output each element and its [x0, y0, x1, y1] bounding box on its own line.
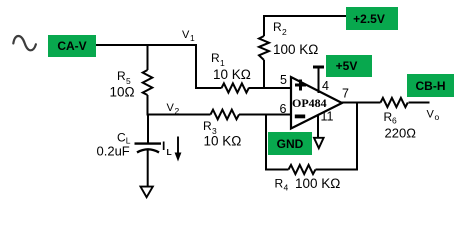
wire: R2 top to +2.5V [263, 15, 346, 17]
svg-text:10Ω: 10Ω [110, 85, 135, 100]
output wire: R6 to Vo [409, 102, 430, 104]
+5V supply bar and pin 4 wire [313, 67, 324, 93]
resistor R3 [203, 110, 241, 149]
resistor R1 [211, 51, 251, 93]
svg-text:6: 6 [280, 102, 287, 116]
svg-text:7: 7 [342, 87, 349, 101]
resistor R4 [275, 165, 341, 193]
svg-text:V: V [427, 109, 435, 121]
svg-text:R: R [117, 69, 126, 83]
svg-text:+2.5V: +2.5V [353, 12, 385, 26]
svg-text:4: 4 [322, 79, 329, 93]
svg-text:0.2uF: 0.2uF [97, 144, 130, 159]
svg-text:R: R [273, 20, 282, 34]
svg-text:11: 11 [321, 110, 334, 124]
svg-text:C: C [117, 131, 126, 145]
node V2 label [167, 102, 180, 116]
resistor R2 [259, 16, 318, 89]
svg-text:o: o [435, 112, 440, 122]
svg-text:V: V [182, 29, 190, 41]
wire: R3 to op-amp - input [239, 114, 291, 116]
svg-text:L: L [167, 147, 172, 157]
+5V label box [326, 55, 372, 77]
svg-text:+5V: +5V [336, 59, 358, 73]
capacitor CL [97, 115, 162, 188]
svg-text:R: R [203, 119, 212, 133]
ground below capacitor [141, 187, 153, 198]
svg-text:100 KΩ: 100 KΩ [295, 176, 340, 191]
CA-V input label box [48, 35, 96, 57]
svg-text:220Ω: 220Ω [385, 126, 417, 141]
wire: V1 down to R1 row [196, 44, 222, 88]
svg-text:4: 4 [284, 183, 289, 193]
op-amp U1 OP484 [291, 77, 342, 129]
wire: R1 to op-amp + input [249, 87, 292, 89]
svg-text:R: R [275, 177, 284, 191]
svg-text:I: I [162, 139, 165, 153]
AC source sine symbol [13, 36, 36, 50]
current IL label and arrow [162, 137, 181, 162]
ground at pin 11 [314, 138, 324, 148]
svg-text:5: 5 [280, 73, 287, 87]
wire: CA-V to node V1 corner [96, 44, 196, 46]
feedback wire: up to output node [356, 103, 358, 171]
svg-text:2: 2 [282, 27, 287, 37]
feedback bottom wire right [316, 169, 359, 171]
GND label box [268, 132, 312, 155]
svg-text:V: V [167, 102, 175, 114]
svg-text:10 KΩ: 10 KΩ [213, 67, 251, 82]
pin 11 wire to ground [317, 115, 319, 138]
svg-text:GND: GND [277, 137, 304, 151]
CB-H output label box [407, 74, 454, 97]
svg-text:100 KΩ: 100 KΩ [273, 42, 318, 57]
output wire: pin 7 to R6 [341, 102, 381, 104]
+2.5V rail label box [346, 7, 398, 30]
svg-text:1: 1 [190, 33, 195, 43]
wire: V2 row to R3 [147, 114, 211, 116]
svg-text:10 KΩ: 10 KΩ [204, 134, 242, 149]
svg-text:CA-V: CA-V [57, 39, 86, 53]
svg-text:6: 6 [392, 116, 397, 126]
resistor R6 [381, 98, 417, 141]
node V1 label [182, 29, 195, 43]
feedback bottom wire left [265, 169, 289, 171]
resistor R5 [110, 44, 153, 116]
feedback wire: pin 6 node down [265, 114, 267, 171]
svg-text:R: R [211, 51, 220, 65]
svg-text:CB-H: CB-H [416, 79, 446, 93]
node Vo label [427, 109, 440, 123]
svg-text:OP484: OP484 [292, 96, 327, 110]
